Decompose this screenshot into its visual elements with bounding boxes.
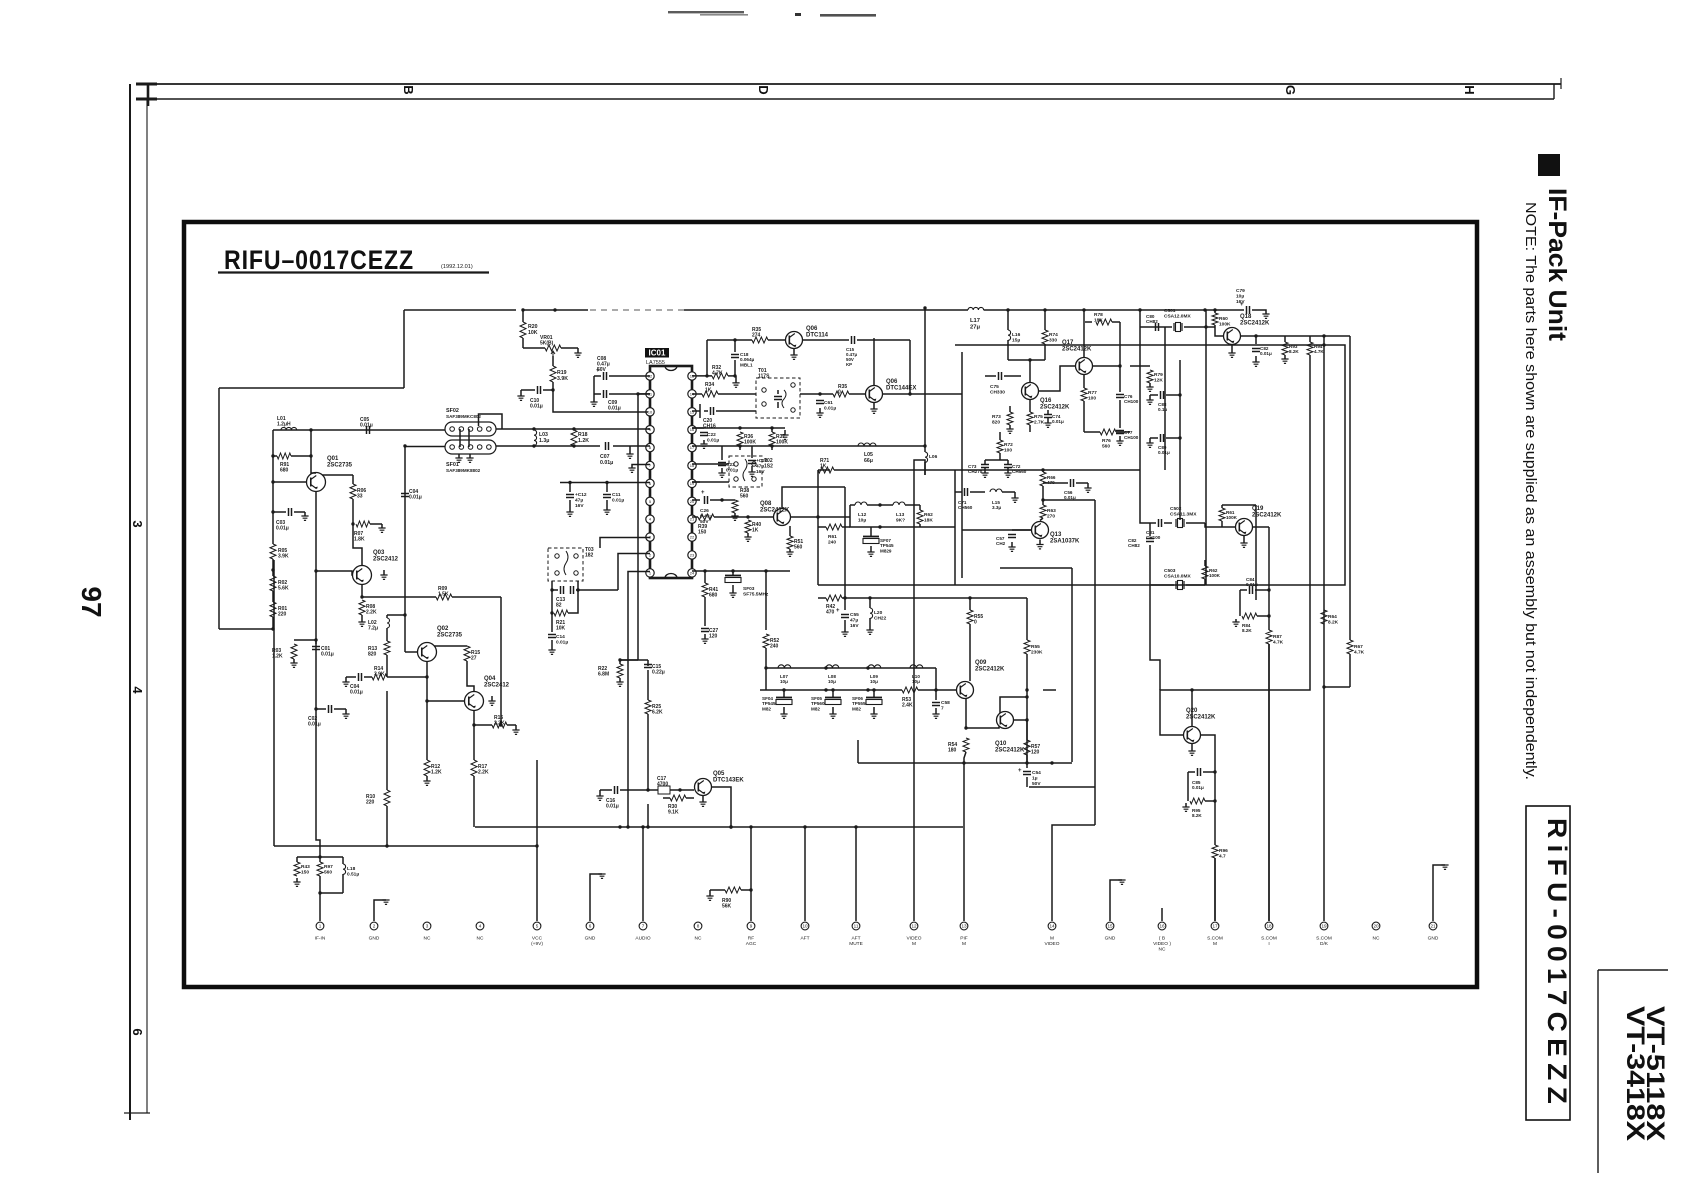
svg-text:RF: RF — [748, 936, 754, 942]
block frame — [954, 470, 956, 585]
junction — [1028, 358, 1031, 361]
wire Q04 base — [427, 700, 465, 702]
svg-text:12: 12 — [911, 924, 917, 929]
wire — [647, 804, 649, 827]
resistor R36 — [692, 427, 740, 429]
svg-text:97: 97 — [76, 586, 107, 617]
capacitor C82b — [1146, 539, 1154, 542]
ground — [491, 696, 493, 701]
capacitor C85 — [1188, 771, 1195, 773]
SAW filter SF02 — [445, 422, 496, 436]
svg-text:L031.3μ: L031.3μ — [539, 432, 549, 444]
svg-text:RIFU–0017CEZZ: RIFU–0017CEZZ — [224, 245, 414, 275]
capacitor C07 — [606, 442, 609, 450]
wire tie — [459, 429, 461, 447]
wire — [297, 856, 343, 858]
wire — [692, 481, 729, 483]
resistor R43 — [296, 857, 298, 862]
junction — [1025, 761, 1028, 764]
svg-text:AFT: AFT — [851, 936, 860, 942]
connector pin 1 — [316, 922, 324, 930]
junction — [271, 480, 274, 483]
svg-text:L06: L06 — [929, 454, 938, 460]
svg-text:M: M — [912, 941, 916, 947]
resistor R62 — [919, 505, 921, 510]
ground pin6 — [590, 874, 602, 921]
resistor R91 — [273, 455, 277, 457]
junction — [641, 825, 644, 828]
transistor Q06 — [786, 332, 803, 349]
wire — [1268, 527, 1270, 600]
wire video riser — [914, 460, 925, 921]
wire — [1310, 335, 1350, 337]
wire — [218, 388, 220, 629]
svg-text:NC: NC — [424, 936, 431, 942]
junction — [425, 699, 428, 702]
svg-text:3: 3 — [426, 924, 429, 929]
wire — [1026, 690, 1028, 763]
wire — [985, 459, 1008, 461]
resistor R25 — [647, 690, 649, 700]
svg-text:AUDIO: AUDIO — [635, 936, 650, 942]
resistor R72 — [999, 432, 1001, 440]
junction — [1025, 718, 1028, 721]
SAW filter SF07 — [870, 527, 872, 536]
resistor R78 — [1085, 321, 1092, 323]
wire — [1205, 326, 1215, 328]
resistor R73 — [1007, 412, 1013, 425]
capacitor C15 — [620, 659, 648, 661]
connector pin 9 — [747, 922, 755, 930]
wire — [1241, 335, 1256, 337]
junction — [1025, 695, 1028, 698]
transistor Q13 — [1032, 522, 1049, 539]
svg-text:R7818K: R7818K — [1094, 312, 1103, 323]
wire — [403, 310, 405, 388]
svg-text:L0910μ: L0910μ — [870, 674, 878, 684]
svg-text:R54180: R54180 — [948, 742, 957, 754]
ground — [469, 454, 471, 458]
wire Q02 base — [405, 651, 418, 653]
wire — [219, 387, 404, 389]
wire — [387, 676, 427, 678]
wire Q10 collector — [1014, 719, 1027, 721]
resistor R10 — [384, 790, 390, 806]
svg-text:NC: NC — [695, 936, 702, 942]
svg-text:+: + — [1018, 768, 1022, 774]
resistor R67 — [1347, 640, 1353, 654]
wire — [1215, 330, 1223, 336]
wire top supply bus — [523, 309, 968, 311]
capacitor C21 — [692, 427, 704, 429]
schematic border — [184, 222, 1477, 987]
crystal C503 — [1176, 581, 1184, 589]
svg-text:17: 17 — [1212, 924, 1218, 929]
resistor R79 — [1130, 365, 1150, 367]
resistor R03 — [291, 644, 297, 659]
capacitor C73 — [981, 465, 989, 468]
resistor R12 — [424, 760, 430, 776]
wire AFT MUTE riser — [855, 827, 857, 921]
resistor R08 — [359, 600, 365, 615]
wire — [765, 571, 767, 630]
svg-text:R9056K: R9056K — [722, 898, 732, 910]
svg-text:15: 15 — [690, 409, 695, 414]
wire — [320, 892, 343, 894]
model bracket rule — [1598, 969, 1668, 971]
resistor R39 — [692, 516, 698, 518]
capacitor C23 — [721, 446, 723, 460]
wire Q01 collector — [311, 456, 316, 473]
connector pin 3 — [423, 922, 431, 930]
wire — [692, 463, 729, 465]
junction — [803, 825, 806, 828]
capacitor C81 — [1150, 522, 1156, 524]
resistor R13 — [386, 628, 388, 641]
resistor R57 — [1026, 720, 1028, 740]
svg-text:D: D — [756, 85, 771, 94]
capacitor C10 — [521, 389, 535, 391]
wire — [560, 482, 650, 484]
crystal C501 — [1165, 326, 1172, 328]
resistor R37 — [769, 432, 775, 446]
svg-text:S.COM: S.COM — [1207, 936, 1223, 942]
svg-text:7: 7 — [642, 924, 645, 929]
svg-text:R38560: R38560 — [740, 488, 749, 500]
wire IF video rail — [1205, 310, 1207, 585]
inductor L15 — [990, 489, 1002, 492]
inductor L09 — [868, 665, 881, 668]
inductor L08 — [826, 665, 839, 668]
crystal C502 — [1176, 519, 1184, 527]
svg-text:R2010K: R2010K — [528, 324, 538, 336]
svg-text:10: 10 — [802, 924, 808, 929]
transistor Q08 — [774, 509, 791, 526]
capacitor C80 — [1156, 323, 1159, 331]
block frame right — [955, 345, 1345, 585]
svg-text:R51560: R51560 — [794, 539, 803, 551]
capacitor C20 — [692, 410, 700, 412]
junction — [472, 723, 475, 726]
capacitor C58 — [935, 690, 937, 700]
svg-text:R6218K: R6218K — [924, 512, 933, 523]
wire — [473, 711, 475, 726]
svg-text:VIDEO: VIDEO — [1045, 941, 1060, 947]
wire — [924, 308, 926, 446]
wire — [1150, 585, 1160, 690]
svg-text:6: 6 — [589, 924, 592, 929]
capacitor C04b — [401, 494, 409, 497]
junction — [521, 308, 524, 311]
resistor R87 — [1268, 600, 1270, 630]
svg-text:2: 2 — [373, 924, 376, 929]
svg-text:R13820: R13820 — [368, 646, 377, 658]
junction — [499, 723, 502, 726]
svg-text:1: 1 — [319, 924, 322, 929]
wire — [1140, 470, 1150, 523]
svg-text:B: B — [401, 85, 416, 94]
svg-text:L0710μ: L0710μ — [780, 674, 788, 684]
resistor R34 — [692, 393, 702, 395]
transistor Q01 — [307, 473, 326, 492]
SAW filter SF05 — [832, 690, 834, 698]
capacitor C75 — [985, 375, 996, 377]
svg-text:R76560: R76560 — [1102, 438, 1111, 449]
transistor Q17 — [1076, 358, 1093, 375]
wire SF01 tap — [404, 446, 406, 652]
connector pin 2 — [370, 922, 378, 930]
svg-text:R10220: R10220 — [366, 794, 375, 806]
wire — [760, 689, 766, 691]
capacitor C18 — [731, 355, 739, 358]
wire — [765, 668, 767, 690]
svg-text:R35274: R35274 — [752, 327, 761, 339]
resistor R76 — [1100, 429, 1116, 435]
svg-text:19: 19 — [1321, 924, 1327, 929]
capacitor C12 — [569, 483, 571, 493]
capacitor C56 — [1043, 482, 1068, 484]
wire — [647, 660, 649, 666]
wire — [434, 645, 467, 647]
svg-text:SAF389MK8802: SAF389MK8802 — [446, 468, 481, 473]
resistor R96 — [1201, 735, 1215, 845]
resistor R17 — [471, 760, 477, 776]
junction — [1204, 325, 1207, 328]
ground — [629, 446, 631, 454]
svg-text:AGC: AGC — [746, 941, 757, 947]
resistor R90 — [741, 889, 751, 891]
junction — [1203, 308, 1206, 311]
wire Q10 base — [1000, 697, 1027, 713]
junction — [854, 825, 857, 828]
capacitor C16 — [600, 789, 612, 791]
svg-text:NC: NC — [1373, 936, 1380, 942]
resistor R35 — [820, 393, 833, 395]
svg-text:VR015K(B): VR015K(B) — [540, 335, 554, 347]
ground — [1191, 744, 1193, 751]
junction — [271, 627, 274, 630]
wire — [361, 585, 363, 598]
svg-text:8: 8 — [697, 924, 700, 929]
wire VCC bus — [274, 845, 537, 847]
resistor R09 — [436, 594, 452, 600]
junction — [843, 596, 846, 599]
svg-text:L1615μ: L1615μ — [1012, 332, 1021, 343]
resistor R56 — [1026, 598, 1028, 640]
ground — [1039, 540, 1041, 545]
svg-text:IF-IN: IF-IN — [315, 936, 326, 942]
inductor L12 — [850, 504, 855, 506]
svg-text:R39150: R39150 — [698, 524, 707, 536]
junction — [309, 454, 312, 457]
resistor R19 — [552, 356, 554, 366]
svg-text:C880.1μ: C880.1μ — [1158, 402, 1167, 412]
wire — [1222, 504, 1256, 506]
junction — [1254, 334, 1257, 337]
wire — [1255, 505, 1257, 600]
wire Q04 collector — [467, 661, 474, 692]
junction — [425, 675, 428, 678]
wire — [1285, 335, 1310, 337]
svg-text:( B: ( B — [1159, 936, 1165, 942]
capacitor C17 — [648, 789, 658, 791]
capacitor C76 — [1119, 322, 1121, 366]
junction — [1082, 308, 1085, 311]
svg-text:T021S2: T021S2 — [764, 458, 773, 470]
inductor L17 — [968, 307, 984, 310]
capacitor C61 — [800, 393, 820, 395]
svg-text:L0810μ: L0810μ — [828, 674, 836, 684]
SAW filter SF03 — [732, 571, 734, 576]
junction — [824, 666, 827, 669]
inductor L05 — [858, 443, 876, 446]
wire — [618, 554, 650, 591]
page frame left rules — [129, 84, 131, 1120]
connector pin 6 — [586, 922, 594, 930]
svg-text:13: 13 — [961, 924, 967, 929]
wire — [273, 560, 275, 846]
connector pin 21 — [1429, 922, 1437, 930]
resistor R07 — [352, 499, 354, 524]
wire VCC riser — [536, 760, 538, 921]
svg-text:R77100: R77100 — [1088, 390, 1097, 401]
resistor R62b — [1204, 560, 1206, 566]
SAW filter SF04 — [783, 690, 785, 698]
ground — [873, 403, 875, 409]
wire — [850, 505, 920, 527]
resistor R22 — [619, 660, 621, 664]
svg-text:R42470: R42470 — [826, 604, 835, 616]
junction — [1190, 688, 1193, 691]
inductor L03 — [534, 430, 537, 446]
wire — [1205, 523, 1235, 527]
wire SF out rail — [496, 428, 650, 430]
resistor R84 — [1239, 590, 1241, 616]
junction — [318, 855, 321, 858]
wire Q01 emitter — [315, 492, 317, 653]
transistor Q04 — [465, 692, 484, 711]
capacitor C08 — [594, 375, 601, 377]
label box RiFU-0017CEZZ — [1526, 806, 1570, 1120]
capacitor C72 — [1004, 465, 1012, 468]
connector pin 11 — [852, 922, 860, 930]
wire — [1214, 858, 1216, 921]
wire pin1 column — [628, 572, 650, 828]
resistor R21 — [551, 590, 553, 613]
svg-text:14: 14 — [1049, 924, 1055, 929]
wire — [496, 445, 600, 447]
resistor R54 — [963, 738, 969, 752]
junction — [646, 825, 649, 828]
wire — [1323, 336, 1325, 345]
connector pin 8 — [694, 922, 702, 930]
wire — [500, 597, 502, 725]
capacitor C27 — [704, 597, 706, 626]
resistor R18 — [571, 430, 577, 446]
resistor R74 — [1044, 310, 1046, 330]
svg-text:23: 23 — [690, 553, 695, 558]
connector pin 4 — [476, 922, 484, 930]
wire pin1 lead — [319, 893, 321, 921]
svg-text:L0566μ: L0566μ — [864, 452, 873, 464]
resistor R61 — [826, 524, 842, 530]
wire — [272, 591, 274, 602]
resistor R94 — [1309, 336, 1311, 342]
wire pin11 branch — [638, 393, 650, 395]
junction — [1138, 308, 1141, 311]
connector pin 16 — [1158, 922, 1166, 930]
wire left ladder — [272, 430, 274, 544]
svg-text:R91680: R91680 — [280, 462, 289, 474]
wire 598 bus — [845, 597, 1027, 599]
svg-text:LA7555: LA7555 — [646, 360, 665, 366]
wire IF input rail — [273, 429, 445, 431]
wire — [1044, 499, 1095, 501]
wire — [935, 668, 937, 690]
svg-text:IC01: IC01 — [649, 349, 666, 358]
capacitor C15 — [803, 339, 849, 341]
svg-text:R2110K: R2110K — [556, 620, 566, 632]
wire pin16 stub — [1161, 908, 1163, 921]
resistor R77 — [1083, 375, 1085, 388]
resistor R93 — [1284, 336, 1286, 342]
wire — [272, 559, 274, 576]
svg-text:L139K?: L139K? — [896, 512, 905, 523]
inductor L01 — [281, 427, 297, 430]
svg-text:5: 5 — [536, 924, 539, 929]
svg-text:L1727μ: L1727μ — [970, 318, 980, 330]
svg-text:4: 4 — [479, 924, 482, 929]
wire Q02 emitter — [426, 662, 428, 702]
wire Q08 base — [748, 516, 773, 518]
capacitor C89 — [1150, 437, 1158, 439]
SAW filter SF06 — [873, 690, 875, 698]
wire AGC bus — [475, 826, 963, 828]
wire — [219, 628, 273, 630]
ground — [793, 349, 795, 355]
resistor R61b — [1221, 505, 1223, 508]
ground pin2 — [374, 900, 386, 921]
wire — [362, 596, 436, 598]
junction — [535, 844, 538, 847]
svg-text:H: H — [1462, 85, 1477, 94]
capacitor C26 — [692, 499, 700, 501]
junction — [923, 306, 926, 309]
wire S.COM D/K riser — [1323, 345, 1325, 921]
wire Q05 collector — [712, 787, 731, 827]
svg-text:D/K: D/K — [1320, 941, 1329, 947]
svg-text:R193.9K: R193.9K — [557, 370, 568, 382]
capacitor C84 — [1240, 589, 1247, 591]
connector pin 7 — [639, 922, 647, 930]
svg-text:+: + — [836, 608, 840, 614]
capacitor C11 — [606, 483, 608, 493]
svg-text:R61240: R61240 — [828, 534, 837, 545]
svg-text:R41680: R41680 — [709, 587, 718, 599]
svg-text:C57CH2: C57CH2 — [996, 536, 1006, 546]
svg-text:IF-Pack Unit: IF-Pack Unit — [1543, 188, 1571, 342]
wire — [553, 390, 648, 412]
svg-text:R97560: R97560 — [324, 864, 333, 875]
capacitor C13 — [551, 581, 553, 590]
wire — [1029, 360, 1031, 382]
wire Q13 base — [962, 529, 1031, 531]
connector pin 5 — [533, 922, 541, 930]
resistor R63 — [1040, 505, 1046, 518]
wire rail 1165 — [1164, 327, 1166, 470]
wire Q09 emitter — [965, 699, 967, 728]
block frame — [817, 487, 819, 585]
